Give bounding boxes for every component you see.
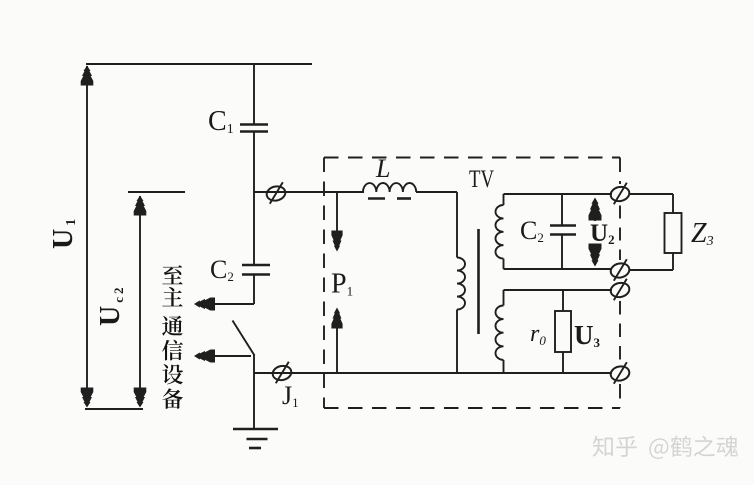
wire tap lower <box>213 355 251 357</box>
watermark zhihu <box>593 436 613 457</box>
wire switch to ground <box>253 355 255 429</box>
wire C1 to junction <box>253 132 255 193</box>
arrow to comm lower <box>194 350 215 363</box>
terminal X2 <box>609 185 630 203</box>
resistor Z3 <box>665 213 682 253</box>
wire bottom bus <box>254 372 612 374</box>
wire middle tap to box <box>254 191 364 193</box>
switch blade <box>233 321 255 356</box>
wire C2 to tap <box>253 275 255 305</box>
transformer core <box>477 229 480 334</box>
dashed enclosure <box>324 157 620 159</box>
arrow to comm upper <box>194 298 215 311</box>
wire Z3 bottom <box>672 253 674 270</box>
capacitor C2 <box>242 264 270 267</box>
inductor L <box>363 183 416 192</box>
ground <box>233 428 278 431</box>
wire junction to C2 <box>253 192 255 265</box>
svg-text:TV: TV <box>469 166 494 193</box>
label to-main-communication-equipment <box>162 265 182 284</box>
wire top bus <box>86 63 312 65</box>
wire bottom reference line <box>85 408 143 410</box>
transformer secondary winding upper <box>503 194 505 205</box>
node U2 measure <box>594 199 596 221</box>
wire secondary upper top <box>504 193 613 195</box>
transformer primary winding <box>456 192 458 258</box>
capacitor C2 compensating <box>561 194 563 226</box>
wire Z3 top <box>629 193 673 195</box>
svg-text:L: L <box>375 154 390 183</box>
terminal X5 <box>609 365 630 383</box>
wire secondary upper bottom <box>504 268 613 270</box>
wire C1 branch upper <box>253 64 255 124</box>
wire secondary lower top <box>504 289 613 291</box>
node Uc2 reference line <box>128 191 185 193</box>
resistor r0 <box>562 290 564 311</box>
terminal J1 <box>271 364 292 382</box>
transformer secondary winding lower <box>503 290 505 306</box>
capacitor C1 <box>240 123 268 126</box>
terminal X1 <box>265 185 286 203</box>
terminal X3 <box>609 262 630 280</box>
wire tap upper <box>213 303 254 305</box>
terminal X4 <box>609 281 630 299</box>
node P1 measure line lower <box>331 308 342 329</box>
node P1 measure line upper <box>336 192 338 231</box>
wire inductor to TV <box>416 191 457 193</box>
node U1 measure line <box>86 66 88 406</box>
node Uc2 measure line <box>139 196 141 406</box>
